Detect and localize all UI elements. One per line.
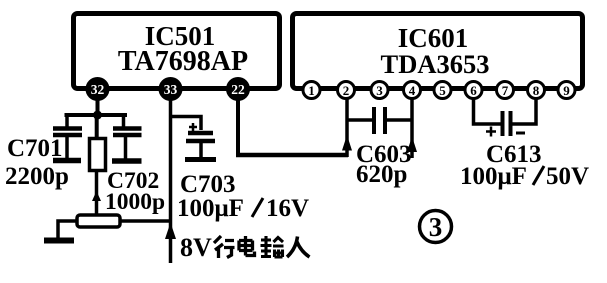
svg-text:TDA3653: TDA3653 [381,49,490,79]
IC501 pin 32 [86,77,110,101]
svg-text:4: 4 [409,83,416,98]
svg-text:C701: C701 [7,135,63,162]
svg-text:C703: C703 [180,171,236,198]
svg-text:50V: 50V [546,163,589,190]
wire long horizontal to IC601 pin2 [236,153,348,158]
IC601 pin 5 [434,82,451,99]
hanzi ru [287,237,310,258]
svg-text:1000p: 1000p [105,189,165,215]
IC U601 box [293,14,583,89]
IC601 pin 4 [404,82,421,99]
svg-text:6: 6 [470,83,477,98]
wire pin32 node to resistor [95,115,99,140]
wire resistor right to 8V line [120,219,172,223]
ground (left bottom) [44,238,74,244]
IC601 pin 9 [558,82,575,99]
wire resistor to R-hor [95,170,99,216]
svg-text:32: 32 [91,82,105,97]
capacitor C603 [347,107,412,134]
wire resistor left to ground [58,221,77,238]
svg-text:5: 5 [439,83,446,98]
svg-text:1: 1 [308,83,315,98]
IC U501 box [74,14,280,89]
hanzi shu [261,236,284,257]
capacitor C702 [113,115,142,159]
ground under C702 [112,158,142,164]
wire IC601 pin4 down [410,98,414,158]
IC601 pin 7 [497,82,514,99]
ground under C703 [185,157,216,162]
arrow on pin4 wire [407,137,417,153]
wire pin22 down [236,100,240,157]
svg-text:22: 22 [231,82,245,97]
IC501 pin 33 [159,77,183,101]
ground under C701 [53,158,81,164]
IC601 pin 2 [338,82,355,99]
svg-text:3: 3 [429,212,443,242]
hanzi dian [239,236,255,256]
svg-text:2: 2 [343,83,350,98]
svg-text:7: 7 [502,83,509,98]
IC501 pin 22 [226,77,250,101]
100uF/16V value label [177,195,309,222]
hanzi xing [214,236,235,258]
svg-text:620p: 620p [356,161,407,188]
svg-text:8: 8 [533,83,540,98]
100uF/50V value label [460,163,589,190]
IC601 pin 1 [303,82,320,99]
svg-text:9: 9 [563,83,570,98]
wire IC601 pin8 down [512,98,536,124]
svg-text:2200p: 2200p [5,163,69,190]
IC601 pin 8 [528,82,545,99]
resistor (vertical) [90,139,106,171]
8V line-power input label [180,233,310,262]
wire IC601 pin6 down [474,98,502,124]
svg-text:3: 3 [376,83,383,98]
node junction bar under pin32 [65,113,128,117]
svg-text:100μF: 100μF [460,163,527,190]
arrow on wire [92,191,101,201]
arrow 8V input [165,223,176,240]
capacitor C701 [53,115,82,159]
capacitor C613 (electrolytic) [486,111,525,137]
wire stub to C703 [171,117,202,131]
svg-text:33: 33 [164,82,178,97]
arrow on pin2 wire [342,135,352,151]
svg-text:16V: 16V [266,195,309,222]
svg-text:100μF: 100μF [177,195,244,222]
svg-text:8V: 8V [180,233,212,262]
wire pin33 down (8V rail) [169,100,173,263]
IC601 pin 6 [465,82,482,99]
wire pin32 down [96,100,100,115]
IC601 pin 3 [371,82,388,99]
svg-text:TA7698AP: TA7698AP [118,46,248,77]
figure number 3 (circled) [420,211,452,243]
wire IC601 pin2 down [345,98,349,157]
junction dot [93,111,102,120]
resistor (horizontal) [77,215,120,227]
capacitor C703 (electrolytic) [186,123,215,158]
